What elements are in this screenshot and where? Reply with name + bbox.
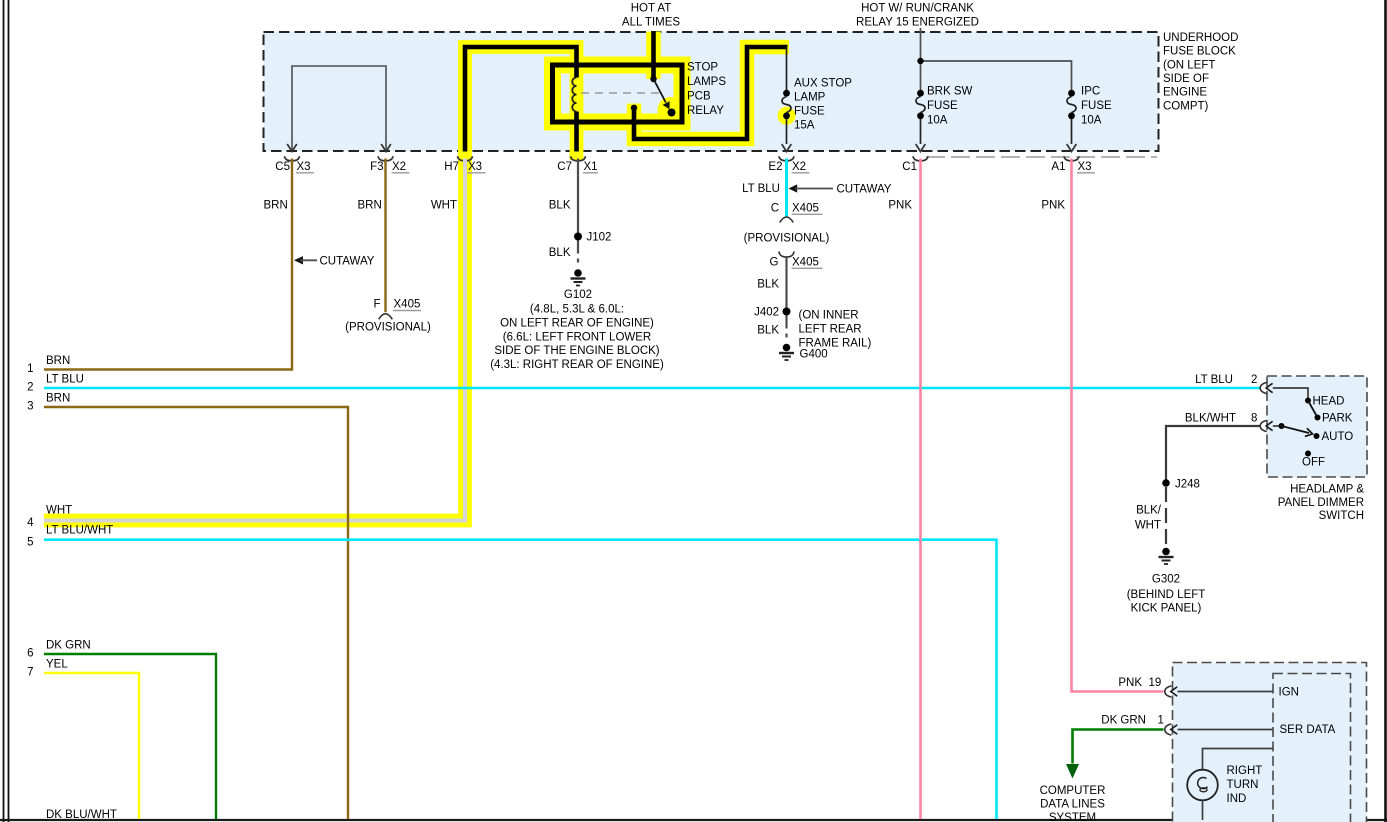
connector C X405 <box>771 203 823 223</box>
svg-text:BRK SW: BRK SW <box>927 86 973 98</box>
svg-text:STOP: STOP <box>687 62 718 74</box>
svg-text:PNK: PNK <box>888 200 912 212</box>
wire highlight hot feed (yellow) <box>646 32 661 80</box>
svg-text:FUSE BLOCK: FUSE BLOCK <box>1163 46 1236 58</box>
svg-text:2: 2 <box>1251 374 1257 386</box>
svg-text:WHT: WHT <box>431 200 457 212</box>
svg-text:G302: G302 <box>1152 574 1180 586</box>
wire BRN F3 provisional <box>384 159 386 313</box>
svg-text:J102: J102 <box>587 232 612 244</box>
page border bottom <box>0 819 1387 821</box>
label HOT W/ RUN/CRANK RELAY 15 ENERGIZED <box>856 3 979 29</box>
svg-text:ENGINE: ENGINE <box>1163 87 1207 99</box>
svg-text:DK GRN: DK GRN <box>46 640 91 652</box>
svg-text:KICK PANEL): KICK PANEL) <box>1131 603 1202 615</box>
relay coil <box>572 78 576 112</box>
label G102 <box>564 289 592 301</box>
label BLK J402 <box>757 325 779 337</box>
cutaway arrow E2 <box>789 184 892 196</box>
wire C5-F3 jumper (staple) <box>292 66 386 150</box>
svg-text:COMPUTER: COMPUTER <box>1040 785 1106 797</box>
svg-text:AUX STOP: AUX STOP <box>794 77 852 89</box>
fuse F1 highlight ring (yellow) <box>780 110 793 123</box>
svg-text:6: 6 <box>27 648 33 660</box>
svg-text:WHT: WHT <box>46 505 72 517</box>
svg-text:X2: X2 <box>792 161 806 173</box>
splice J402 <box>754 307 790 319</box>
wire pin19 to IGN <box>1178 691 1274 693</box>
svg-text:PNK: PNK <box>1041 200 1065 212</box>
wire relay coil to C7 (black core) <box>574 112 579 152</box>
wire BLK G to J402 <box>785 256 787 308</box>
fuse F3 label <box>1081 86 1112 127</box>
label circuit 1 <box>27 355 70 375</box>
relay switch contact terminal <box>668 109 676 117</box>
svg-text:LT BLU/WHT: LT BLU/WHT <box>46 525 113 537</box>
arrow into F3 <box>381 144 391 152</box>
switch OFF terminal <box>1302 451 1325 469</box>
wire LT BLU E2 <box>785 159 788 218</box>
svg-text:IND: IND <box>1227 793 1247 805</box>
svg-text:IGN: IGN <box>1279 687 1299 699</box>
connector C5 X3 <box>275 156 314 173</box>
connector pin 8 <box>1185 413 1273 432</box>
svg-text:HOT AT: HOT AT <box>631 3 671 15</box>
label WHT H7 <box>431 200 457 212</box>
svg-text:RELAY 15 ENERGIZED: RELAY 15 ENERGIZED <box>856 17 979 29</box>
label BLK C7 <box>549 200 571 212</box>
wire pin8 stub <box>1273 425 1279 427</box>
headlamp switch box <box>1267 376 1367 477</box>
cutaway arrow line 1 <box>294 255 375 267</box>
arrow into C5 <box>287 144 297 152</box>
switch PARK terminal <box>1315 413 1353 425</box>
svg-text:CUTAWAY: CUTAWAY <box>320 255 375 267</box>
fuse F2 - BRK SW FUSE 10A <box>916 90 926 152</box>
wire BRN line 3 <box>44 407 348 819</box>
svg-text:(4.3L: RIGHT REAR OF ENGINE): (4.3L: RIGHT REAR OF ENGINE) <box>490 359 664 371</box>
switch wiper pivot <box>1279 423 1285 429</box>
svg-text:7: 7 <box>27 667 33 679</box>
svg-text:FUSE: FUSE <box>794 105 825 117</box>
off-page arrow computer data lines <box>1066 764 1079 779</box>
svg-text:J402: J402 <box>754 307 779 319</box>
svg-text:RIGHT: RIGHT <box>1227 765 1263 777</box>
svg-text:X3: X3 <box>297 161 311 173</box>
page border right <box>1384 0 1387 822</box>
svg-text:F: F <box>373 299 380 311</box>
label BLK G <box>757 279 779 291</box>
underhood fuse block outline <box>264 32 1159 151</box>
relay internal dashed link <box>581 92 663 94</box>
connector C1 <box>902 156 928 173</box>
svg-text:(6.6L: LEFT FRONT LOWER: (6.6L: LEFT FRONT LOWER <box>503 331 651 343</box>
svg-text:BRN: BRN <box>358 200 382 212</box>
svg-text:OFF: OFF <box>1302 457 1325 469</box>
svg-text:SWITCH: SWITCH <box>1319 510 1364 522</box>
svg-text:IPC: IPC <box>1081 86 1100 98</box>
svg-text:(PROVISIONAL): (PROVISIONAL) <box>744 233 830 245</box>
fuse F2 label <box>927 86 973 127</box>
lamp DS1 - RIGHT TURN IND <box>1187 770 1218 801</box>
fuse F1 - AUX STOP LAMP FUSE 15A <box>782 90 792 152</box>
svg-text:BRN: BRN <box>264 200 288 212</box>
ground G400 <box>779 344 794 360</box>
svg-text:TURN: TURN <box>1227 779 1259 791</box>
svg-text:1: 1 <box>1158 715 1164 727</box>
fuse F3 - IPC FUSE 10A <box>1067 90 1077 152</box>
svg-text:(BEHIND LEFT: (BEHIND LEFT <box>1127 589 1206 601</box>
svg-text:A1: A1 <box>1051 161 1065 173</box>
ground G102 <box>571 269 586 285</box>
connector H7 X3 <box>444 156 485 173</box>
label BLK/WHT vertical <box>1135 505 1162 532</box>
svg-text:BRN: BRN <box>46 355 70 367</box>
underhood fuse block label <box>1163 32 1238 113</box>
svg-text:BLK: BLK <box>549 200 571 212</box>
relay output pin <box>631 105 637 111</box>
svg-text:X3: X3 <box>1078 161 1092 173</box>
svg-text:LAMP: LAMP <box>794 91 826 103</box>
svg-text:3: 3 <box>27 401 33 413</box>
label circuit 2 <box>27 374 84 394</box>
label IGN <box>1279 687 1299 699</box>
svg-text:BRN: BRN <box>46 393 70 405</box>
svg-text:BLK: BLK <box>757 279 779 291</box>
wire highlight WHT circuit (yellow) <box>44 47 577 521</box>
svg-text:LT BLU: LT BLU <box>1195 374 1233 386</box>
svg-text:LAMPS: LAMPS <box>687 76 726 88</box>
wire DK GRN line 6 <box>44 654 216 819</box>
svg-text:RELAY: RELAY <box>687 105 724 117</box>
svg-text:C: C <box>771 203 779 215</box>
page border left <box>4 0 9 822</box>
svg-text:DATA LINES: DATA LINES <box>1040 799 1105 811</box>
svg-text:X1: X1 <box>584 161 598 173</box>
svg-text:(ON INNER: (ON INNER <box>799 310 859 322</box>
svg-text:G400: G400 <box>800 349 828 361</box>
svg-text:C7: C7 <box>557 161 572 173</box>
svg-text:AUTO: AUTO <box>1322 431 1354 443</box>
svg-text:BLK: BLK <box>549 247 571 259</box>
switch arm HEAD-PARK <box>1308 401 1318 418</box>
wire branch to IPC fuse <box>921 61 1072 91</box>
wire LT BLU/WHT line 5 <box>44 540 997 819</box>
svg-text:COMPT): COMPT) <box>1163 100 1209 112</box>
relay outline highlight (yellow) <box>553 65 683 122</box>
label circuit 4 <box>27 505 72 530</box>
svg-text:15A: 15A <box>794 119 815 131</box>
label LT BLU E2 <box>742 183 780 195</box>
wire hot run/crank feed <box>920 28 922 91</box>
svg-text:FUSE: FUSE <box>927 100 958 112</box>
instrument cluster box <box>1173 663 1367 822</box>
wire hot feed to relay switch (black core) <box>651 32 656 80</box>
svg-text:SER DATA: SER DATA <box>1280 724 1336 736</box>
svg-text:G102: G102 <box>564 289 592 301</box>
svg-text:19: 19 <box>1149 677 1162 689</box>
label DK BLU/WHT next line <box>46 809 117 821</box>
switch AUTO terminal <box>1314 431 1354 443</box>
label G302 <box>1127 574 1206 615</box>
svg-text:G: G <box>770 257 779 269</box>
svg-text:J248: J248 <box>1175 479 1200 491</box>
connector F3 X2 <box>370 156 409 173</box>
svg-text:CUTAWAY: CUTAWAY <box>837 184 892 196</box>
connector E2 X2 <box>768 156 809 173</box>
svg-text:X3: X3 <box>468 161 482 173</box>
ground G302 <box>1159 548 1174 564</box>
label circuit 7 <box>27 659 68 679</box>
wire LT BLU line 2 <box>44 387 1261 390</box>
splice J248 <box>1162 479 1200 491</box>
fuse block inner bottom dashed line <box>926 156 1157 158</box>
wire H7 to relay coil (black core) <box>465 47 577 152</box>
svg-text:LEFT REAR: LEFT REAR <box>799 324 862 336</box>
svg-text:DK BLU/WHT: DK BLU/WHT <box>46 809 117 821</box>
wire PNK A1 to IGN <box>1072 159 1164 692</box>
svg-text:X405: X405 <box>394 299 421 311</box>
relay contact highlight blob (yellow) <box>658 97 684 123</box>
wire relay output to aux fuse (black core) <box>634 47 788 139</box>
note G400 location <box>799 310 872 350</box>
connector C7 X1 <box>557 156 598 173</box>
svg-text:BLK: BLK <box>757 325 779 337</box>
svg-text:H7: H7 <box>444 161 459 173</box>
label right turn ind <box>1227 765 1263 805</box>
label circuit 6 <box>27 640 91 660</box>
svg-text:ON LEFT REAR OF ENGINE): ON LEFT REAR OF ENGINE) <box>500 317 654 329</box>
wire highlight relay output (yellow) <box>634 47 789 139</box>
svg-text:DK GRN: DK GRN <box>1101 715 1146 727</box>
svg-text:C1: C1 <box>902 161 917 173</box>
svg-text:F3: F3 <box>370 161 383 173</box>
svg-text:SYSTEM: SYSTEM <box>1049 812 1096 822</box>
svg-text:1: 1 <box>27 363 33 375</box>
wire pin2 to HEAD <box>1273 388 1308 398</box>
connector G X405 <box>770 252 823 269</box>
svg-text:X405: X405 <box>792 257 819 269</box>
svg-text:10A: 10A <box>927 114 948 126</box>
svg-text:FUSE: FUSE <box>1081 100 1112 112</box>
label BLK below J102 <box>549 247 571 259</box>
headlamp switch caption <box>1278 484 1365 523</box>
svg-text:8: 8 <box>1251 413 1257 425</box>
connector pin 1 <box>1101 715 1177 736</box>
svg-text:(4.8L, 5.3L & 6.0L:: (4.8L, 5.3L & 6.0L: <box>530 304 624 316</box>
svg-text:C5: C5 <box>275 161 290 173</box>
svg-text:(PROVISIONAL): (PROVISIONAL) <box>345 322 431 334</box>
connector pin 19 <box>1118 677 1177 697</box>
svg-text:WHT: WHT <box>1135 520 1161 532</box>
label circuit 5 <box>27 525 113 549</box>
wire YEL line 7 <box>44 673 139 819</box>
wire DK GRN ser data <box>1073 730 1164 764</box>
svg-text:X2: X2 <box>392 161 406 173</box>
svg-text:PANEL DIMMER: PANEL DIMMER <box>1278 497 1364 509</box>
label G400 <box>800 349 828 361</box>
label PNK C1 <box>888 200 912 212</box>
relay K - STOP LAMPS PCB RELAY box <box>553 65 683 122</box>
svg-text:5: 5 <box>27 536 33 548</box>
svg-text:2: 2 <box>27 382 33 394</box>
label SER DATA <box>1280 724 1336 736</box>
svg-text:BLK/WHT: BLK/WHT <box>1185 413 1236 425</box>
svg-text:E2: E2 <box>768 161 782 173</box>
svg-text:X405: X405 <box>792 203 819 215</box>
label PNK A1 <box>1041 200 1065 212</box>
wire pin1 to SER DATA <box>1178 729 1274 731</box>
svg-text:HEADLAMP &: HEADLAMP & <box>1290 484 1364 496</box>
note G102 location <box>490 304 664 372</box>
wire BLK J102 to G102 <box>577 241 579 268</box>
connector F X405 <box>373 299 421 320</box>
svg-text:LT BLU: LT BLU <box>46 374 84 386</box>
relay label <box>687 62 726 118</box>
wire BRN C5 to line 1 <box>44 159 292 370</box>
label provisional F <box>345 322 431 334</box>
label circuit 3 <box>27 393 70 413</box>
junction node <box>917 58 923 64</box>
svg-text:YEL: YEL <box>46 659 68 671</box>
wire lamp to ser data <box>1203 749 1274 770</box>
svg-text:HEAD: HEAD <box>1313 396 1345 408</box>
wire BLK/WHT pin8 to J248 <box>1166 426 1261 480</box>
switch HEAD terminal <box>1305 396 1344 408</box>
svg-text:HOT W/ RUN/CRANK: HOT W/ RUN/CRANK <box>861 3 974 15</box>
svg-text:LT BLU: LT BLU <box>742 183 780 195</box>
label BRN C5 <box>264 200 288 212</box>
svg-text:PARK: PARK <box>1322 413 1353 425</box>
label BRN F3 <box>358 200 382 212</box>
cluster inner box <box>1273 674 1351 822</box>
svg-text:BLK/: BLK/ <box>1136 505 1162 517</box>
svg-text:UNDERHOOD: UNDERHOOD <box>1163 32 1238 44</box>
connector pin 2 <box>1195 374 1273 394</box>
switch arm to AUTO <box>1282 426 1313 436</box>
relay switch arm <box>654 79 670 109</box>
connector A1 X3 <box>1051 156 1095 173</box>
svg-text:SIDE OF: SIDE OF <box>1163 73 1209 85</box>
relay switch common terminal <box>650 76 656 82</box>
fuse F1 label <box>794 77 852 131</box>
wire lamp bottom <box>1202 800 1204 820</box>
wire BLK J402 to G400 <box>785 316 787 343</box>
label HOT AT ALL TIMES <box>622 3 680 29</box>
svg-text:10A: 10A <box>1081 114 1102 126</box>
svg-text:(ON LEFT: (ON LEFT <box>1163 59 1215 71</box>
svg-text:4: 4 <box>27 517 34 529</box>
label computer data lines system <box>1040 785 1106 822</box>
aux stop lamp fuse lead <box>786 47 788 91</box>
svg-text:SIDE OF THE ENGINE BLOCK): SIDE OF THE ENGINE BLOCK) <box>494 345 659 357</box>
wire BLK/WHT J248 to G302 <box>1165 487 1167 546</box>
splice J102 <box>574 232 611 244</box>
svg-text:ALL TIMES: ALL TIMES <box>622 17 680 29</box>
wire PNK C1 down <box>919 159 922 820</box>
svg-text:PCB: PCB <box>687 91 711 103</box>
svg-text:PNK: PNK <box>1118 677 1142 689</box>
svg-text:FRAME RAIL): FRAME RAIL) <box>799 338 872 350</box>
wire WHT line 4 core <box>44 159 465 521</box>
wire BLK C7 to J102 <box>577 159 579 234</box>
label provisional C <box>744 233 830 245</box>
